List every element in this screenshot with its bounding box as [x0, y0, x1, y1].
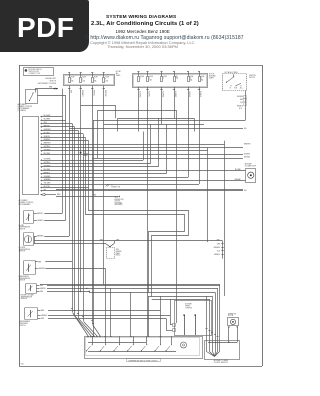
svg-text:2: 2	[140, 78, 141, 80]
svg-text:AUXILIARY: AUXILIARY	[245, 163, 252, 166]
svg-text:FUSE: FUSE	[163, 76, 167, 78]
svg-text:ENGINE LEFT: ENGINE LEFT	[115, 199, 124, 201]
svg-text:SIDE OF: SIDE OF	[115, 201, 121, 203]
svg-text:SENSOR: SENSOR	[19, 229, 26, 231]
note icon	[25, 69, 28, 72]
sensor outside temp wire BRN/RED	[34, 236, 37, 238]
staircase wire 85.5	[86, 138, 185, 293]
fuse box2 cell 5	[188, 72, 190, 77]
wire long y158	[92, 158, 243, 160]
row wire BLU/YEL group2-9	[40, 187, 88, 189]
header line 3	[116, 29, 170, 34]
control head entry 6	[99, 336, 101, 338]
svg-text:BRN/YEL: BRN/YEL	[37, 213, 43, 215]
svg-text:EVAPORATOR: EVAPORATOR	[19, 275, 30, 278]
svg-text:HOT IN: HOT IN	[209, 74, 214, 76]
row wire GRY/BLU group1-10	[40, 147, 243, 149]
S204 box	[107, 248, 115, 259]
svg-text:BLK: BLK	[244, 128, 247, 130]
svg-text:GRY/RED: GRY/RED	[44, 166, 52, 168]
svg-text:BRN/WHT: BRN/WHT	[244, 143, 251, 145]
svg-text:190: 190	[21, 363, 24, 365]
control head switch 2	[100, 350, 101, 351]
control head entry 3	[92, 336, 94, 338]
fuse box2 cell 4	[174, 72, 176, 77]
ignition connector column	[244, 96, 247, 99]
svg-text:(BEHIND: (BEHIND	[83, 153, 89, 155]
sensor refrigerant press	[25, 308, 38, 320]
svg-text:RED/WHT: RED/WHT	[81, 90, 83, 97]
row wire GRY group1-3	[40, 123, 72, 125]
wire elbow y110.9	[97, 110, 177, 112]
vertical wire 72	[72, 123, 74, 312]
svg-text:RUN: RUN	[234, 88, 237, 90]
fuse2 drop wire GRN/VIO	[188, 87, 190, 90]
ignition feed wire	[93, 120, 245, 122]
blower regulator pins	[183, 314, 185, 316]
ignition feed drop	[93, 121, 95, 337]
wire A horizontal	[34, 240, 223, 242]
row wire BLU/GRN group1-1	[40, 116, 62, 118]
PDF badge	[0, 0, 89, 52]
svg-text:SIDE OF: SIDE OF	[50, 81, 56, 83]
control head inner bus	[88, 351, 176, 353]
wire elbow y105.2	[81, 105, 116, 107]
blower regulator box	[175, 301, 212, 336]
bridge wire B6 leg	[206, 296, 208, 341]
bottom right connector box	[205, 341, 240, 360]
fuse F4 box1	[103, 73, 105, 78]
svg-text:BRN: BRN	[38, 261, 41, 263]
svg-text:GRN: GRN	[40, 291, 43, 293]
row wire GRY/RED group2-3	[40, 166, 158, 168]
sensor coolant temp wire BRN	[37, 285, 40, 287]
staircase vertical 158.5	[158, 118, 160, 167]
svg-text:T4: T4	[146, 340, 148, 342]
row wire YEL/GRN group2-8	[40, 184, 199, 186]
row wire GRN/BLU group1-8	[40, 140, 88, 142]
control head switch 4	[127, 350, 128, 351]
svg-text:BLOWER: BLOWER	[185, 304, 192, 306]
svg-text:SWITCH: SWITCH	[20, 325, 26, 327]
svg-text:AC: AC	[176, 75, 178, 78]
svg-text:GRN: GRN	[100, 239, 103, 241]
control head entry 10	[148, 336, 150, 338]
vertical wire 78	[78, 130, 80, 318]
svg-text:GRN: GRN	[116, 239, 119, 241]
fuse box2 cell 1	[138, 72, 140, 77]
svg-text:FUSE: FUSE	[201, 76, 205, 78]
svg-text:BLK/GRN: BLK/GRN	[139, 91, 141, 97]
header line 1	[106, 15, 176, 20]
vertical wire 83	[83, 134, 85, 321]
svg-text:MOTOR: MOTOR	[228, 315, 233, 317]
svg-text:GRN: GRN	[217, 239, 220, 241]
bottom right merge wires	[206, 341, 208, 352]
V splice into S204	[106, 244, 110, 247]
svg-text:BLK: BLK	[240, 102, 243, 104]
sensor evaporator temp	[24, 261, 36, 275]
row wire BLU/BLK group1-6	[40, 133, 83, 135]
svg-text:PRESSURE: PRESSURE	[20, 323, 28, 325]
svg-text:7: 7	[94, 79, 95, 81]
svg-text:RED/BLU: RED/BLU	[237, 105, 243, 107]
svg-text:BRN/BLU: BRN/BLU	[44, 172, 51, 174]
svg-text:BLK/RED: BLK/RED	[44, 153, 51, 155]
fuse box2 cell 6	[199, 72, 201, 77]
svg-text:GRN: GRN	[41, 318, 44, 320]
svg-text:CONTROL: CONTROL	[185, 308, 192, 310]
bridge wire B1	[40, 284, 220, 286]
wire to cluster	[35, 88, 58, 90]
svg-text:BLK/PNK: BLK/PNK	[244, 157, 250, 159]
corner wire 224.5	[224, 141, 226, 296]
svg-text:GRN/BLK: GRN/BLK	[41, 315, 47, 317]
wire long y189	[56, 189, 243, 191]
fuse box2 cell 3	[161, 72, 163, 77]
svg-text:BRN: BRN	[57, 194, 60, 196]
sensor coolant temp wire GRN/YEL	[37, 288, 40, 290]
fuse2 drop wire BLK/BLU	[199, 87, 201, 90]
svg-text:GRN/BLK: GRN/BLK	[214, 254, 220, 256]
svg-text:5: 5	[149, 78, 150, 80]
ignition switch dashed box	[223, 74, 247, 91]
svg-text:BLK/RED: BLK/RED	[235, 169, 241, 171]
fuse F3 box1	[92, 73, 94, 78]
control head inner bus 2	[88, 342, 146, 344]
svg-text:RED: RED	[240, 99, 243, 101]
svg-text:FUSE: FUSE	[140, 76, 144, 78]
sensor coolant temp	[26, 284, 37, 294]
control head switch 1	[86, 350, 87, 351]
control head entry 8	[110, 336, 112, 338]
svg-text:YEL/GRN: YEL/GRN	[44, 183, 51, 185]
wire long BLK right	[69, 128, 243, 130]
row wire GRY/RED group1-11	[40, 150, 207, 152]
control head entry 1	[87, 336, 89, 338]
svg-text:FUSE: FUSE	[105, 77, 109, 79]
bridge wire B5	[152, 299, 210, 301]
svg-text:(BEHIND: (BEHIND	[116, 251, 122, 253]
aspirator box	[228, 318, 239, 326]
fuse2 drop wire BLK/WHT	[174, 87, 176, 90]
control head label strip	[127, 359, 161, 362]
ignition switch symbol	[226, 82, 227, 83]
svg-text:HOT AT: HOT AT	[116, 70, 121, 73]
row wire BLK/RED group1-12	[40, 154, 243, 156]
control head entry 7	[104, 336, 106, 338]
fuse box 1 outline	[64, 75, 115, 86]
svg-text:GRN: GRN	[93, 195, 96, 197]
svg-text:9: 9	[105, 79, 106, 81]
svg-text:S218: S218	[115, 197, 118, 199]
row wire GRN/RED group2-6	[40, 177, 188, 179]
svg-text:TIMES: TIMES	[116, 75, 121, 77]
riser wire 65.5	[65, 95, 67, 221]
switch contact	[30, 93, 34, 101]
svg-text:SENSOR: SENSOR	[19, 280, 26, 282]
diagram frame	[19, 65, 21, 366]
blower vertical 176.9	[176, 111, 178, 323]
fuse box2 cell 2	[147, 72, 149, 77]
sensor evaporator temp wire BRN	[35, 261, 38, 263]
vertical wire 160.5	[160, 296, 162, 336]
svg-text:GRY/BLU: GRY/BLU	[44, 162, 51, 164]
svg-text:BLU/BLK: BLU/BLK	[44, 132, 50, 134]
svg-text:BLK/RED: BLK/RED	[244, 154, 250, 156]
fuse F2 box1	[80, 73, 82, 78]
svg-text:6: 6	[163, 78, 164, 80]
svg-text:GRN/RED: GRN/RED	[214, 247, 220, 249]
svg-text:1: 1	[71, 79, 72, 81]
switch wire stub	[35, 89, 37, 93]
staircase vertical 143.1	[143, 132, 145, 161]
svg-text:CONTROL SENSORS: CONTROL SENSORS	[214, 362, 228, 364]
control head entry 2	[90, 336, 92, 338]
blower regulator side connectors	[173, 324, 176, 327]
row wire GRY/BRN group2-1	[40, 160, 143, 162]
svg-text:GRN/RED: GRN/RED	[44, 176, 52, 178]
fuse1 drop wire RED/YEL	[92, 86, 94, 89]
control head switch 3	[113, 350, 114, 351]
svg-text:BLU: BLU	[217, 251, 220, 253]
header link line	[85, 35, 244, 41]
svg-text:BRN: BRN	[40, 285, 43, 287]
svg-text:BLU/GRN: BLU/GRN	[44, 115, 51, 117]
fuse box 2 outline	[133, 74, 208, 88]
svg-text:BLK: BLK	[244, 190, 247, 192]
svg-text:GRN/YEL: GRN/YEL	[44, 136, 51, 138]
row wire BLK/RED group2-4	[40, 170, 245, 172]
svg-text:GRN: GRN	[217, 244, 220, 246]
svg-text:IGNITION: IGNITION	[249, 75, 256, 77]
staircase vertical 150.8	[150, 124, 152, 164]
bridge wire B3	[89, 291, 91, 292]
svg-text:GRN/BLU: GRN/BLU	[44, 139, 51, 141]
control head switch 7	[165, 350, 166, 351]
svg-text:FUSE: FUSE	[82, 77, 86, 79]
svg-text:BE SURE DEFOG: BE SURE DEFOG	[29, 69, 43, 71]
sensor in-car temp wire BRN/YEL	[34, 213, 37, 215]
row wire GRN/WHT group1-5	[40, 130, 78, 132]
header date line	[107, 44, 178, 49]
connector column right	[222, 241, 224, 259]
bottom right inner bus	[208, 342, 237, 344]
svg-text:SWITCH: SWITCH	[249, 77, 255, 79]
svg-text:FUSE: FUSE	[71, 77, 75, 79]
svg-text:ACC: ACC	[240, 87, 243, 90]
svg-text:GRN/WHT: GRN/WHT	[44, 129, 51, 131]
aspirator terminals	[228, 326, 229, 327]
control head entry 4	[93, 336, 95, 338]
svg-text:BRN: BRN	[41, 310, 44, 312]
cluster ticks	[71, 308, 73, 310]
row wire BRN/YEL group1-4	[40, 126, 74, 128]
svg-text:TEMPERATURE AND BLOWER CONTROL: TEMPERATURE AND BLOWER CONTROL	[128, 359, 158, 362]
svg-text:GRY/BRN: GRY/BRN	[44, 159, 51, 161]
ignition column wire	[245, 90, 247, 120]
connector box programmer	[23, 117, 39, 195]
control head entry 11	[160, 336, 162, 338]
svg-text:BLU/RED: BLU/RED	[44, 119, 51, 121]
fuse1 drop wire RED/GRN	[103, 86, 105, 89]
svg-text:S201: S201	[83, 152, 86, 154]
svg-text:S204: S204	[116, 249, 119, 251]
svg-text:GRY/BLU: GRY/BLU	[44, 146, 51, 148]
svg-text:FUSE: FUSE	[149, 76, 153, 78]
vertical wire 170 to blower stub	[170, 299, 172, 325]
svg-text:GRY/RED: GRY/RED	[44, 150, 52, 152]
wire B horizontal	[34, 243, 106, 245]
PDF badge text	[17, 12, 77, 44]
sensor evaporator temp wire GRN/WHT	[35, 268, 38, 270]
svg-text:RED/GRN: RED/GRN	[104, 90, 106, 96]
wire elbow y118.3	[118, 118, 194, 120]
header copyright line	[90, 40, 194, 45]
ground arrow row	[41, 193, 46, 195]
svg-text:GRN/BLU: GRN/BLU	[37, 220, 43, 222]
switch box programmer	[26, 90, 38, 104]
control head lamp	[181, 342, 187, 348]
sensor in-car temp wire GRN/BLU	[34, 220, 37, 222]
fuse1 drop wire RED	[69, 86, 71, 89]
fuse2 drop wire BLK/GRN	[138, 87, 140, 90]
sensor5 jog wire to blower stub	[166, 319, 168, 331]
sensor outside temp	[24, 233, 34, 246]
header line 2	[91, 21, 199, 27]
svg-text:GRN/RED: GRN/RED	[234, 179, 240, 181]
svg-text:(GROMMET): (GROMMET)	[115, 204, 124, 206]
control head entry 5	[96, 336, 98, 338]
switch box wire right 1	[38, 95, 66, 97]
svg-text:BRN/YEL: BRN/YEL	[44, 126, 51, 128]
svg-text:GRN/RED: GRN/RED	[44, 179, 52, 181]
svg-text:BLK: BLK	[239, 108, 242, 110]
svg-text:AUTOMATIC: AUTOMATIC	[19, 199, 29, 202]
svg-text:INSTRUMENT CLUSTER: INSTRUMENT CLUSTER	[38, 83, 57, 85]
vertical wire 74.5	[74, 127, 76, 315]
svg-text:BRN/WHT: BRN/WHT	[44, 143, 51, 145]
svg-text:REFRIGERANT: REFRIGERANT	[20, 320, 31, 323]
svg-text:12: 12	[201, 78, 203, 80]
sensor4 junction dots	[86, 288, 87, 289]
J2 connector symbol	[106, 184, 109, 187]
svg-text:BLK/RED: BLK/RED	[237, 96, 243, 98]
corner wire 207.6	[207, 148, 209, 243]
coolant pump box	[246, 169, 256, 183]
control head switch 6	[154, 350, 155, 351]
bridge wire B4	[148, 296, 212, 298]
svg-text:CONNECTOR: CONNECTOR	[111, 187, 120, 189]
fuse2 drop wire BLK/YEL	[147, 87, 149, 90]
sensor refrigerant press wire GRN/BLK	[38, 315, 41, 317]
sensor3 wire2 drop	[105, 268, 107, 336]
bulkhead wire	[56, 196, 118, 198]
svg-text:GRN/YEL: GRN/YEL	[40, 288, 46, 290]
sensor refrigerant press wire GRN	[38, 318, 41, 320]
row wire BRN/WHT group1-9	[40, 144, 224, 146]
sensor2 jog	[34, 236, 36, 244]
svg-text:SPEED: SPEED	[185, 306, 191, 308]
row wire BRN/BLU group2-5	[40, 173, 166, 175]
svg-text:SENSOR: SENSOR	[21, 298, 28, 300]
fuse F1 box1	[69, 73, 71, 78]
svg-text:GRN/WHT: GRN/WHT	[38, 268, 45, 270]
fuse2 drop wire BLK/RED	[161, 87, 163, 90]
control head switch 5	[141, 350, 142, 351]
svg-text:SWITCH IS IN: SWITCH IS IN	[29, 71, 40, 73]
svg-text:BLU/YEL: BLU/YEL	[44, 186, 50, 188]
svg-text:ENGINE LEFT: ENGINE LEFT	[46, 78, 56, 80]
svg-text:4: 4	[82, 79, 83, 81]
note box	[24, 68, 54, 76]
svg-text:ASPIRATOR: ASPIRATOR	[228, 312, 236, 315]
bridge wire B2	[87, 288, 218, 290]
svg-text:10: 10	[190, 78, 192, 80]
fuse1 drop3 jog to cluster	[93, 325, 101, 337]
row wire BLU/RED group1-2	[40, 120, 65, 122]
row wire BLK group2-10	[40, 190, 243, 192]
riser wire 62	[62, 89, 64, 214]
bundle ticks	[206, 328, 208, 330]
control head box	[85, 337, 203, 359]
svg-text:FUSE: FUSE	[190, 76, 194, 78]
svg-text:GRY: GRY	[44, 122, 47, 124]
svg-text:SENSOR: SENSOR	[19, 251, 26, 253]
svg-text:BLK/RED: BLK/RED	[162, 91, 164, 97]
svg-text:FUSE: FUSE	[94, 77, 98, 79]
staircase wire 88.6	[89, 141, 189, 297]
svg-text:ENGINE COOLANT: ENGINE COOLANT	[21, 293, 35, 296]
fuse1 drop wire RED/WHT	[80, 86, 82, 89]
sensor in-car temp	[24, 211, 34, 224]
svg-text:OUTSIDE: OUTSIDE	[19, 247, 26, 249]
control head entry 9	[130, 336, 132, 338]
row wire GRN/RED group2-7	[40, 180, 245, 182]
row wire GRY/BLU group2-2	[40, 163, 150, 165]
sensor refrigerant press wire BRN	[38, 310, 41, 312]
svg-text:J2: J2	[111, 185, 113, 187]
svg-text:BLK: BLK	[44, 189, 47, 191]
svg-text:BRN/RED: BRN/RED	[37, 236, 43, 238]
svg-text:ST: ST	[230, 88, 232, 90]
svg-text:BLK/YEL: BLK/YEL	[148, 91, 150, 97]
wire horizontal y124	[104, 124, 204, 126]
sensor coolant temp wire GRN	[37, 291, 40, 293]
svg-text:BLK/RED: BLK/RED	[44, 169, 51, 171]
row wire GRN/YEL group1-7	[40, 137, 85, 139]
splice S201	[80, 152, 82, 154]
svg-text:CORRECT POS: CORRECT POS	[29, 73, 41, 75]
staircase vertical 166.2	[166, 124, 168, 174]
